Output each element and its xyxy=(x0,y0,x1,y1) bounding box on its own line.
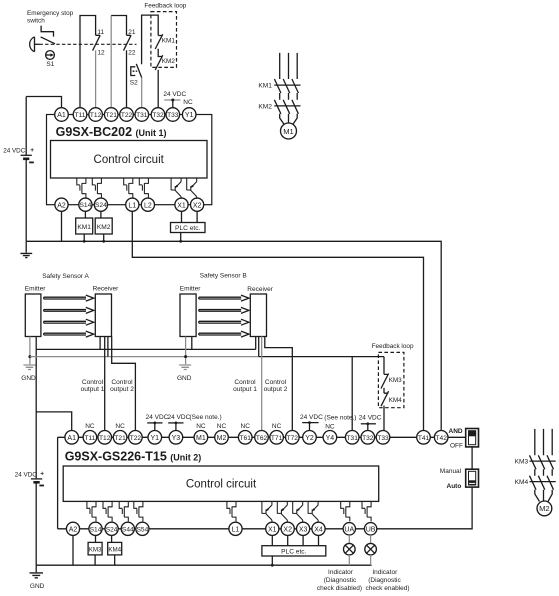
emitter B ground wire xyxy=(185,337,187,365)
terminal S54 (unit 2) xyxy=(136,522,149,535)
terminal T32 (unit 2) xyxy=(361,431,375,445)
svg-text:Emitter: Emitter xyxy=(25,286,46,293)
svg-text:KM4: KM4 xyxy=(389,397,403,404)
svg-text:Manual: Manual xyxy=(440,468,462,475)
svg-text:Auto: Auto xyxy=(447,483,462,490)
svg-text:24 VDC: 24 VDC xyxy=(359,414,382,421)
wire goalpost T21-T22 xyxy=(110,16,112,108)
three-phase mid segments M2 xyxy=(535,469,552,475)
svg-text:M2: M2 xyxy=(539,504,550,513)
contactor KM3 contacts (3-pole) xyxy=(530,455,556,469)
svg-text:KM4: KM4 xyxy=(515,479,529,486)
wire T31 drop xyxy=(351,357,353,431)
motor M2 leads xyxy=(535,490,552,502)
svg-text:A1: A1 xyxy=(57,112,66,119)
wire switch1 to switch2 xyxy=(471,447,473,469)
wire KM2 to T32 xyxy=(157,70,159,108)
ground GND B xyxy=(177,365,192,382)
terminal X2 (unit 1) xyxy=(191,198,204,211)
24VDC bar Y2 xyxy=(302,421,318,430)
wire L1 to T41 xyxy=(132,211,423,430)
svg-text:NC: NC xyxy=(272,423,282,430)
svg-text:PLC etc.: PLC etc. xyxy=(175,225,200,232)
transistor output S14 (unit 2) xyxy=(87,501,96,521)
terminal T21 (unit 1) xyxy=(104,108,118,122)
terminal X2 (unit 2) xyxy=(281,522,294,535)
svg-text:UA: UA xyxy=(344,526,354,533)
relay coil KM3 xyxy=(88,542,102,555)
terminal T62 (unit 2) xyxy=(255,431,269,445)
svg-text:Control circuit: Control circuit xyxy=(186,479,257,491)
svg-text:NC: NC xyxy=(217,423,227,430)
terminal T31 (unit 1) xyxy=(135,108,149,122)
svg-text:X2: X2 xyxy=(283,526,292,533)
svg-text:UB: UB xyxy=(366,526,376,533)
wire battery 2 to A1 (unit 2) xyxy=(36,412,71,431)
svg-text:24 VDC: 24 VDC xyxy=(15,471,38,478)
terminal S44 (unit 2) xyxy=(121,522,134,535)
switch S2 bracket xyxy=(131,67,136,76)
svg-text:12: 12 xyxy=(97,50,105,57)
terminal UA (unit 2) xyxy=(343,523,355,535)
svg-text:T33: T33 xyxy=(167,112,179,119)
wire S14 to KM3 coil xyxy=(95,535,97,542)
switch S2 bracket dashes xyxy=(133,70,138,72)
svg-text:T61: T61 xyxy=(240,435,252,442)
24 VDC supply bar (unit 1) xyxy=(164,99,180,101)
terminal A2 (unit 2) xyxy=(66,522,79,535)
wire PLC to 0V rail xyxy=(180,233,182,242)
svg-text:output 1: output 1 xyxy=(233,386,257,393)
contact 21-22 lower leg xyxy=(126,50,128,107)
svg-text:S1: S1 xyxy=(46,61,54,68)
emitter box sensor A xyxy=(25,294,41,337)
contact 11-12 lower leg xyxy=(95,50,97,107)
0V rail to T42 xyxy=(26,241,441,430)
svg-text:KM4: KM4 xyxy=(108,546,121,553)
terminal X4 (unit 2) xyxy=(312,522,325,535)
terminal T61 (unit 2) xyxy=(238,431,252,445)
svg-text:T71: T71 xyxy=(271,435,283,442)
svg-text:24 VDC: 24 VDC xyxy=(3,147,26,154)
transistor output X1 (unit 1) xyxy=(171,178,181,199)
terminal Y1 (unit 1) xyxy=(182,108,196,122)
relay coil KM1 xyxy=(76,218,93,234)
terminal X1 (unit 1) xyxy=(175,198,188,211)
terminal T11 (unit 2) xyxy=(83,431,97,445)
wire UB to indicator lamp 2 xyxy=(370,535,372,543)
svg-text:24 VDC: 24 VDC xyxy=(168,414,191,421)
svg-text:GND: GND xyxy=(177,375,192,382)
wire X4 to PLC (unit 2) xyxy=(318,535,320,545)
wire S24 to KM2 coil xyxy=(100,211,102,218)
transistor output X4 (unit 2) xyxy=(308,501,318,522)
svg-text:(Diagnostic: (Diagnostic xyxy=(324,577,357,584)
svg-text:G9SX-GS226-T15 (Unit 2): G9SX-GS226-T15 (Unit 2) xyxy=(65,450,202,464)
svg-text:T11: T11 xyxy=(84,435,95,442)
contact KM3 (feedback 2) xyxy=(381,357,389,389)
svg-text:X1: X1 xyxy=(177,202,186,209)
receiver A pin 1 wire xyxy=(99,337,101,350)
svg-text:Receiver: Receiver xyxy=(93,286,119,293)
svg-text:T32: T32 xyxy=(152,112,164,119)
terminal T12 (unit 2) xyxy=(98,431,112,445)
wire A2 to rail (unit 2) xyxy=(72,535,74,565)
receiver B control output 2 wire to T72 xyxy=(265,337,293,431)
contact KM4 (feedback 2) xyxy=(381,388,389,406)
transistor output L1 (unit 1) xyxy=(124,178,133,198)
svg-text:(Diagnostic: (Diagnostic xyxy=(368,577,401,584)
switch Manual/Auto box xyxy=(466,469,479,487)
terminal S24 (unit 2) xyxy=(105,522,118,535)
wire X2 to PLC (unit 2) xyxy=(287,535,289,545)
svg-text:T22: T22 xyxy=(130,435,142,442)
svg-text:M1: M1 xyxy=(196,435,206,442)
wire S24 to KM4 coil xyxy=(111,535,113,542)
wire KM1 coil to 0V rail xyxy=(83,234,85,241)
svg-text:Receiver: Receiver xyxy=(247,286,273,293)
svg-text:output 2: output 2 xyxy=(264,386,288,393)
terminal T33 (unit 1) xyxy=(166,108,180,122)
wire X2 to PLC xyxy=(196,211,198,222)
junction dot PLC-rail xyxy=(179,240,182,243)
svg-text:Safety Sensor B: Safety Sensor B xyxy=(200,273,247,280)
battery 2 symbol xyxy=(31,471,44,487)
svg-text:T21: T21 xyxy=(114,435,126,442)
receiver B pin 1 wire xyxy=(255,337,257,350)
beam arrow A4 xyxy=(44,331,94,337)
svg-text:L2: L2 xyxy=(144,202,152,209)
transistor output UA (unit 2) xyxy=(341,501,350,521)
control circuit box unit 1 xyxy=(51,141,208,179)
terminal T22 (unit 2) xyxy=(129,431,143,445)
label control output 1 (B) xyxy=(233,379,257,393)
svg-text:S24: S24 xyxy=(106,526,118,533)
wire KM3 coil to rail xyxy=(94,555,96,565)
svg-text:T22: T22 xyxy=(121,112,133,119)
transistor output L1 (unit 2) xyxy=(227,501,236,521)
terminal Y2 (unit 2) xyxy=(303,431,317,445)
svg-text:KM3: KM3 xyxy=(515,459,529,466)
svg-text:Y1: Y1 xyxy=(151,435,160,442)
ground (top left) xyxy=(20,241,32,257)
label indicator 2 xyxy=(365,569,409,592)
svg-text:S2: S2 xyxy=(130,80,138,87)
receiver B pin 2 wire xyxy=(258,337,260,357)
terminal T12 (unit 1) xyxy=(89,108,103,122)
wire T31 to feedback loop xyxy=(142,15,159,64)
receiver box sensor B xyxy=(250,294,266,337)
battery 1 wire xyxy=(25,97,27,242)
emergency stop switch S1 mushroom head xyxy=(30,37,40,52)
terminal X1 (unit 2) xyxy=(266,522,279,535)
transistor output S24 (unit 2) xyxy=(103,501,112,521)
svg-text:Indicator: Indicator xyxy=(372,569,398,576)
svg-text:M2: M2 xyxy=(217,435,227,442)
terminal S14 (unit 1) xyxy=(79,198,92,211)
svg-text:T32: T32 xyxy=(362,435,374,442)
svg-text:21: 21 xyxy=(128,29,136,36)
beam arrow B1 xyxy=(199,295,249,301)
svg-text:T62: T62 xyxy=(256,435,268,442)
receiver A control output 1 wire to T12 xyxy=(104,337,106,431)
svg-text:NC: NC xyxy=(183,99,193,106)
svg-text:22: 22 xyxy=(128,50,136,57)
wire KM4 to T33 xyxy=(383,406,384,431)
terminal T72 (unit 2) xyxy=(286,431,300,445)
beam arrow A2 xyxy=(44,307,94,313)
svg-text:KM1: KM1 xyxy=(258,83,272,90)
svg-text:S14: S14 xyxy=(90,526,102,533)
svg-text:KM1: KM1 xyxy=(162,37,176,44)
battery 1 symbol xyxy=(21,147,35,163)
terminal T33 (unit 2) xyxy=(376,431,390,445)
svg-text:Y3: Y3 xyxy=(172,435,181,442)
transistor output X2 (unit 1) xyxy=(187,178,197,199)
junction dot KM2-rail xyxy=(102,240,105,243)
0V line B (continuation to feedback loop 2) xyxy=(259,356,384,358)
terminal T21 (unit 2) xyxy=(113,431,127,445)
beam arrow B3 xyxy=(199,319,249,325)
svg-text:X3: X3 xyxy=(299,526,308,533)
S1 reset arrow symbol xyxy=(46,51,55,60)
label control output 2 (B) xyxy=(264,379,288,393)
junction dot PLC2-rail xyxy=(271,564,274,567)
svg-text:Control: Control xyxy=(82,379,104,386)
svg-text:T21: T21 xyxy=(106,112,118,119)
junction dot on 24VDC bar xyxy=(171,99,174,102)
beam arrow B2 xyxy=(199,307,249,313)
contactor KM1 contacts (3-pole) xyxy=(274,79,300,93)
transistor output S44 (unit 2) xyxy=(119,501,128,521)
label control output 1 (A) xyxy=(81,379,105,393)
wire S14 to KM1 coil xyxy=(84,211,86,218)
emitter box sensor B xyxy=(180,294,196,337)
svg-text:NC: NC xyxy=(85,423,95,430)
svg-text:Feedback loop: Feedback loop xyxy=(372,343,414,350)
terminal S24 (unit 1) xyxy=(94,198,107,211)
indicator lamp 1 xyxy=(344,543,356,555)
svg-text:Y2: Y2 xyxy=(305,435,314,442)
contact KM1 (feedback) xyxy=(155,34,163,49)
+24V line A xyxy=(36,348,256,350)
svg-text:output 1: output 1 xyxy=(81,386,105,393)
wire goalpost T11-T12 xyxy=(80,16,96,108)
PLC box (unit 1) xyxy=(171,223,206,233)
wire emitter A to +24V line and battery 2 xyxy=(35,337,37,566)
transistor output L2 (unit 1) xyxy=(139,178,148,198)
transistor output X1 (unit 2) xyxy=(262,501,272,522)
svg-text:X4: X4 xyxy=(314,526,323,533)
svg-text:Emitter: Emitter xyxy=(180,286,201,293)
svg-text:T41: T41 xyxy=(418,435,430,442)
control circuit box unit 2 xyxy=(63,466,379,501)
svg-text:L1: L1 xyxy=(128,202,136,209)
wire X1 to PLC xyxy=(181,211,183,222)
transistor output S54 (unit 2) xyxy=(134,501,143,521)
wire 24VDC to T33 xyxy=(172,100,174,108)
svg-text:output 2: output 2 xyxy=(110,386,134,393)
svg-text:Y4: Y4 xyxy=(326,435,335,442)
junction dot KM1-rail xyxy=(83,240,86,243)
terminal T42 (unit 2) xyxy=(434,431,448,445)
svg-text:L1: L1 xyxy=(232,526,240,533)
svg-text:+: + xyxy=(30,147,34,154)
terminal T41 (unit 2) xyxy=(417,431,431,445)
terminal A2 (unit 1) xyxy=(55,198,68,211)
0V rail (unit 2) xyxy=(36,564,371,566)
contact KM2 (feedback) xyxy=(155,49,163,70)
label indicator 1 xyxy=(317,569,362,592)
contactor KM4 contacts (3-pole) xyxy=(530,476,556,490)
svg-text:G9SX-BC202 (Unit 1): G9SX-BC202 (Unit 1) xyxy=(56,125,167,139)
terminal T32 (unit 1) xyxy=(151,108,165,122)
svg-text:11: 11 xyxy=(97,29,104,36)
terminal S14 (unit 2) xyxy=(89,522,102,535)
wire battery1 to A1 xyxy=(26,97,61,108)
svg-text:KM3: KM3 xyxy=(389,377,403,384)
transistor output S24 (unit 1) xyxy=(92,178,101,198)
PLC box (unit 2) xyxy=(262,546,326,556)
24VDC bar T32 xyxy=(361,422,376,430)
svg-text:M1: M1 xyxy=(283,127,294,136)
svg-text:24 VDC: 24 VDC xyxy=(146,414,169,421)
svg-text:S44: S44 xyxy=(122,526,134,533)
svg-text:Control: Control xyxy=(111,379,133,386)
svg-text:KM3: KM3 xyxy=(89,546,102,553)
svg-text:Y1: Y1 xyxy=(185,112,194,119)
svg-text:T31: T31 xyxy=(347,435,359,442)
svg-text:+: + xyxy=(40,471,44,478)
wire X1 to PLC (unit 2) xyxy=(271,535,273,545)
svg-text:A2: A2 xyxy=(57,202,66,209)
terminal L1 (unit 2) xyxy=(229,522,242,535)
wire A2 to 0V rail xyxy=(61,211,63,241)
svg-text:A1: A1 xyxy=(67,435,76,442)
motor M1 xyxy=(281,123,297,139)
svg-text:Indicator: Indicator xyxy=(328,569,354,576)
svg-text:NC: NC xyxy=(325,423,335,430)
24VDC bar Y1 xyxy=(147,422,162,431)
svg-text:GND: GND xyxy=(21,375,36,382)
emergency stop switch S1 actuator bracket xyxy=(41,26,53,37)
svg-text:KM2: KM2 xyxy=(258,103,272,110)
svg-text:X1: X1 xyxy=(268,526,277,533)
relay coil KM2 xyxy=(95,218,112,234)
indicator lamp 2 xyxy=(365,543,377,555)
svg-text:Control: Control xyxy=(265,379,287,386)
svg-text:AND: AND xyxy=(449,428,463,435)
beam arrow A3 xyxy=(44,319,94,325)
relay coil KM4 xyxy=(108,542,122,555)
svg-text:switch: switch xyxy=(27,18,45,25)
svg-text:(See note.): (See note.) xyxy=(190,414,222,421)
motor M2 xyxy=(537,501,552,516)
switch S2 contact lever xyxy=(136,64,141,78)
emergency stop switch S1 contact lever xyxy=(41,37,56,44)
svg-text:NC: NC xyxy=(115,423,125,430)
svg-text:Control: Control xyxy=(234,379,256,386)
terminal M2 (unit 2) xyxy=(215,431,229,445)
wire emitter B to +24V line xyxy=(191,337,193,350)
svg-text:T42: T42 xyxy=(436,435,448,442)
transistor output X2 (unit 2) xyxy=(277,501,287,522)
wire goalpost T21-T22 top xyxy=(111,16,126,36)
svg-text:KM2: KM2 xyxy=(97,224,111,231)
receiver B control output 1 wire to T62 xyxy=(261,337,263,431)
wire lamp 2 to rail xyxy=(370,555,372,565)
contact 11-12 tick and lever xyxy=(93,35,101,50)
ground GND A xyxy=(21,365,36,382)
terminal Y1 (unit 2) xyxy=(148,431,162,445)
svg-text:T12: T12 xyxy=(90,112,102,119)
unit 2 outline bottom edge and wire toward Manual/Auto switch xyxy=(58,487,473,529)
junction dot GND B xyxy=(184,355,187,358)
terminal L2 (unit 1) xyxy=(141,198,154,211)
wire KM4 coil to rail xyxy=(114,555,116,565)
svg-text:T72: T72 xyxy=(287,435,299,442)
svg-text:KM1: KM1 xyxy=(77,224,91,231)
terminal X3 (unit 2) xyxy=(297,522,310,535)
feedback loop 1 dashed box xyxy=(151,12,177,68)
terminal T71 (unit 2) xyxy=(270,431,284,445)
terminal L1 (unit 1) xyxy=(126,198,139,211)
24VDC bar Y3 xyxy=(168,422,183,431)
svg-text:KM2: KM2 xyxy=(162,58,176,65)
wire UA to indicator lamp 1 xyxy=(348,535,350,543)
transistor output UB (unit 2) xyxy=(362,501,371,521)
0V line B (gray) xyxy=(30,356,259,358)
svg-text:T11: T11 xyxy=(75,112,86,119)
svg-text:T12: T12 xyxy=(99,435,111,442)
svg-text:NC: NC xyxy=(196,423,206,430)
terminal T31 (unit 2) xyxy=(345,431,359,445)
switch AND/OFF box xyxy=(466,429,479,447)
terminal UB (unit 2) xyxy=(364,523,376,535)
contactor KM2 contacts (3-pole) xyxy=(274,100,300,114)
junction dot GND A xyxy=(28,355,31,358)
wire X3 to PLC (unit 2) xyxy=(302,535,304,545)
svg-text:Safety Sensor A: Safety Sensor A xyxy=(42,273,89,280)
svg-text:check disabled): check disabled) xyxy=(317,585,362,592)
beam arrow A1 xyxy=(44,295,94,301)
beam arrow B4 xyxy=(199,331,249,337)
contact 21-22 tick and lever xyxy=(124,35,132,50)
three-phase mid segments M1 xyxy=(280,93,298,100)
terminal A1 (unit 1) xyxy=(55,108,69,122)
svg-text:Feedback loop: Feedback loop xyxy=(144,3,186,10)
receiver A pin 3 wire xyxy=(107,337,109,357)
svg-text:S24: S24 xyxy=(95,202,107,209)
svg-text:check enabled): check enabled) xyxy=(365,585,409,592)
svg-text:GND: GND xyxy=(30,583,45,590)
terminal T22 (unit 1) xyxy=(120,108,134,122)
wire KM2 coil to 0V rail xyxy=(103,234,105,241)
motor M1 leads xyxy=(280,114,298,125)
terminal M1 (unit 2) xyxy=(194,431,208,445)
transistor output X3 (unit 2) xyxy=(293,501,303,522)
svg-text:S54: S54 xyxy=(137,526,149,533)
wire lamp 1 to rail xyxy=(348,555,350,565)
svg-text:S14: S14 xyxy=(80,202,92,209)
svg-text:24 VDC: 24 VDC xyxy=(300,414,323,421)
receiver box sensor A xyxy=(95,294,111,337)
svg-text:Emergency stop: Emergency stop xyxy=(27,10,74,17)
label control output 2 (A) xyxy=(110,379,134,393)
emergency stop switch S1 label xyxy=(27,10,74,25)
svg-text:X2: X2 xyxy=(193,202,202,209)
feedback loop 2 dashed box xyxy=(378,352,404,407)
